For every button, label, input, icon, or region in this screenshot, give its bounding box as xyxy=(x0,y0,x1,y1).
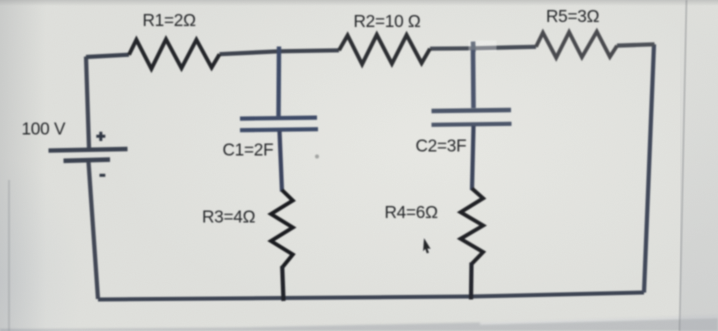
svg-text:C1=2F: C1=2F xyxy=(223,139,274,159)
svg-text:R4=6Ω: R4=6Ω xyxy=(385,202,439,222)
svg-text:R5=3Ω: R5=3Ω xyxy=(546,6,600,26)
svg-text:R2=10 Ω: R2=10 Ω xyxy=(354,11,421,31)
svg-text:R3=4Ω: R3=4Ω xyxy=(202,206,256,226)
svg-text:R1=2Ω: R1=2Ω xyxy=(143,10,197,30)
svg-text:C2=3F: C2=3F xyxy=(416,135,467,155)
svg-text:100 V: 100 V xyxy=(22,118,66,138)
